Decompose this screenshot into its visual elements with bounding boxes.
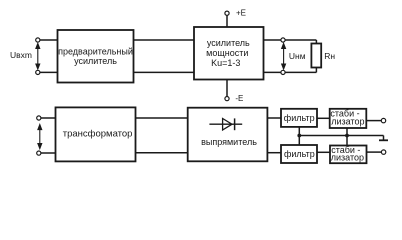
svg-text:Uвхm: Uвхm xyxy=(10,50,32,60)
svg-text:мощности: мощности xyxy=(206,48,248,58)
svg-text:лизатор: лизатор xyxy=(331,116,364,126)
svg-text:предварительный: предварительный xyxy=(58,46,133,56)
svg-text:Uнм: Uнм xyxy=(289,51,306,61)
svg-text:выпрямитель: выпрямитель xyxy=(201,137,257,147)
svg-text:трансформатор: трансформатор xyxy=(63,128,133,139)
svg-text:+E: +E xyxy=(236,9,246,18)
svg-text:Ku=1-3: Ku=1-3 xyxy=(211,58,240,68)
svg-text:фильтр: фильтр xyxy=(284,113,315,123)
svg-text:фильтр: фильтр xyxy=(284,149,315,159)
svg-text:Rн: Rн xyxy=(324,51,335,61)
svg-text:-E: -E xyxy=(235,94,243,103)
svg-text:усилитель: усилитель xyxy=(207,38,250,48)
svg-text:лизатор: лизатор xyxy=(331,152,364,162)
svg-text:усилитель: усилитель xyxy=(74,56,117,66)
